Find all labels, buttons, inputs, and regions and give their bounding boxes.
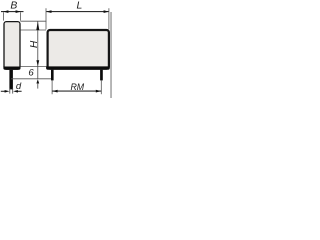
dimension B left arrow bbox=[3, 10, 8, 13]
front view bottom seal bar bbox=[46, 66, 110, 69]
RM extension line right bbox=[100, 80, 102, 94]
H dimension top arrow bbox=[36, 21, 39, 30]
dimension B right arrow bbox=[16, 10, 21, 13]
svg-text:L: L bbox=[77, 0, 83, 11]
seating plane line bbox=[11, 78, 52, 80]
front body top extension line bbox=[20, 29, 46, 31]
dimension B extension line right bbox=[19, 12, 21, 20]
d dimension right tail bbox=[17, 90, 21, 92]
d extension tick right bbox=[12, 88, 14, 93]
svg-text:d: d bbox=[16, 81, 22, 92]
dimension L line bbox=[46, 11, 109, 13]
RM dimension line bbox=[52, 90, 101, 92]
capacitor front view body bbox=[48, 30, 109, 69]
d dimension right arrow bbox=[13, 90, 18, 93]
H dimension vertical line bbox=[37, 21, 39, 79]
lead length bottom arrow bbox=[36, 79, 39, 83]
dimension L left arrow bbox=[46, 10, 51, 13]
dimension L right arrow bbox=[104, 10, 109, 13]
side view bottom seal bar bbox=[3, 67, 20, 70]
svg-text:H: H bbox=[29, 40, 40, 48]
H top extension line bbox=[20, 20, 46, 22]
RM extension line left bbox=[51, 80, 53, 94]
dimension L extension line right bbox=[108, 8, 110, 29]
table border line right bbox=[110, 12, 111, 98]
capacitor side view body bbox=[4, 22, 20, 70]
dimension B extension line left bbox=[3, 12, 5, 20]
d dimension left tail bbox=[1, 90, 5, 92]
svg-text:RM: RM bbox=[70, 82, 84, 92]
d dimension left arrow bbox=[5, 90, 10, 93]
front view left lead wire bbox=[51, 70, 54, 81]
H bottom extension line bbox=[20, 66, 46, 68]
dimension B line bbox=[1, 11, 24, 13]
dimension L extension line left bbox=[45, 8, 47, 29]
H dimension bottom arrow bbox=[36, 60, 39, 66]
lead length arrow tail bbox=[37, 83, 39, 89]
front view right lead wire bbox=[100, 70, 103, 81]
svg-text:6: 6 bbox=[28, 67, 34, 78]
RM left arrow bbox=[52, 90, 57, 93]
RM right arrow bbox=[96, 90, 101, 93]
d extension tick left bbox=[9, 88, 11, 93]
svg-text:B: B bbox=[10, 0, 17, 11]
side view lead wire bbox=[9, 70, 13, 90]
